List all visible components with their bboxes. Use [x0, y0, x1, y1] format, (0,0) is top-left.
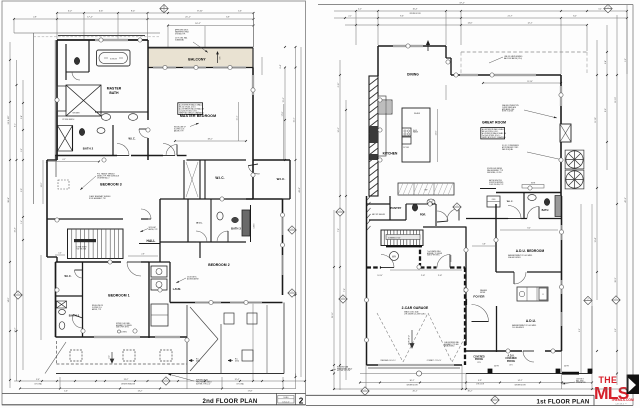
- svg-text:KITCHEN: KITCHEN: [383, 152, 398, 156]
- svg-text:3′-6″: 3′-6″: [21, 148, 23, 152]
- svg-text:GUTTER, TYP. 12′-4″: GUTTER, TYP. 12′-4″: [337, 370, 351, 372]
- svg-text:26′-3″: 26′-3″: [615, 277, 617, 282]
- svg-text:6′-4″: 6′-4″: [605, 60, 607, 64]
- svg-text:SLOPE 1/8″:12″: SLOPE 1/8″:12″: [409, 335, 411, 345]
- svg-text:W.I.C.: W.I.C.: [277, 177, 286, 181]
- svg-text:12′-1″: 12′-1″: [528, 22, 533, 24]
- hall walls near stairs: [423, 226, 466, 228]
- svg-text:2′-8″: 2′-8″: [141, 254, 145, 256]
- svg-text:LA’S MLS ™: LA’S MLS ™: [615, 403, 626, 406]
- svg-text:36′-11″: 36′-11″: [332, 312, 334, 318]
- garage door clearance dashed Vs: [377, 313, 403, 362]
- right sheet left dimension lines: [339, 60, 341, 390]
- svg-text:30x18: 30x18: [413, 130, 417, 132]
- svg-text:17′-8″: 17′-8″: [248, 391, 253, 393]
- svg-text:6′-8″: 6′-8″: [226, 17, 230, 19]
- svg-text:KOHLER: KOHLER: [110, 59, 118, 61]
- svg-text:BEDROOM 2: BEDROOM 2: [208, 263, 229, 267]
- left title scale box: [276, 393, 278, 404]
- ADU wic/bath divider: [523, 193, 525, 219]
- svg-text:15′-10″: 15′-10″: [615, 97, 617, 103]
- left top reference diamond: [160, 4, 168, 12]
- svg-text:9′-4″: 9′-4″: [131, 11, 136, 13]
- svg-text:8′-4″: 8′-4″: [527, 228, 531, 230]
- left sheet top dimension lines: [57, 12, 254, 14]
- svg-text:5′-0″: 5′-0″: [625, 58, 627, 62]
- svg-text:SYSTEM, TYP.: SYSTEM, TYP.: [175, 33, 186, 35]
- svg-text:5′-0″: 5′-0″: [21, 188, 23, 192]
- east wing wic walls: [253, 159, 290, 161]
- bedroom1 wic closet: [82, 262, 84, 337]
- svg-text:4′-2″: 4′-2″: [62, 159, 66, 161]
- svg-text:SIDING, TYP. PER SCHEDULE: SIDING, TYP. PER SCHEDULE: [97, 176, 119, 178]
- svg-text:PDR.: PDR.: [420, 214, 427, 217]
- svg-text:SLOPED CLG: SLOPED CLG: [92, 307, 102, 309]
- svg-text:5′-6″: 5′-6″: [64, 391, 68, 393]
- wall under balcony with windows: [148, 67, 254, 69]
- ADU south wall: [466, 350, 522, 352]
- svg-text:3′-2″: 3′-2″: [598, 8, 602, 10]
- cantilever balcony dashed line: [461, 51, 587, 53]
- svg-text:CONFIG: CONFIG: [121, 332, 128, 334]
- svg-text:40′-2″: 40′-2″: [625, 197, 627, 202]
- ovens: [487, 196, 500, 207]
- svg-text:6x6 PST: 6x6 PST: [564, 366, 569, 368]
- MLS logo: [594, 375, 639, 406]
- svg-text:2′-8″: 2′-8″: [33, 17, 37, 19]
- garage slope arrow: [410, 330, 414, 348]
- svg-text:NICHE: NICHE: [531, 183, 535, 185]
- hall diamond marker: [453, 203, 461, 211]
- bedroom2 right outer wall: [282, 199, 284, 295]
- svg-text:6x6 PST: 6x6 PST: [494, 366, 499, 368]
- vanity sinks master bath: [101, 114, 110, 121]
- svg-text:12′-4″: 12′-4″: [235, 379, 240, 381]
- powder room: [406, 203, 436, 205]
- dim 18-5 interior: [175, 140, 246, 142]
- deck sw diagonal: [45, 342, 66, 374]
- svg-text:16′-2″: 16′-2″: [195, 23, 201, 25]
- stairs second floor: [68, 229, 124, 259]
- dashed square bedroom3: [58, 180, 69, 189]
- svg-text:14′-0″: 14′-0″: [8, 297, 10, 302]
- svg-text:CENTER DOOR: CENTER DOOR: [406, 385, 418, 387]
- svg-text:8′-2″: 8′-2″: [579, 328, 581, 332]
- bath2 east wall: [112, 125, 114, 156]
- top dim risers left sheet: [56, 14, 58, 39]
- svg-text:3′-4″: 3′-4″: [21, 115, 23, 119]
- svg-text:1st FLOOR PLAN: 1st FLOOR PLAN: [537, 399, 590, 406]
- svg-text:W.I.C.: W.I.C.: [215, 176, 224, 180]
- svg-text:36′-1″: 36′-1″: [410, 380, 415, 382]
- svg-text:SHOWER: SHOWER: [72, 113, 80, 115]
- svg-text:SOFFITS/DROPPED: SOFFITS/DROPPED: [489, 182, 504, 184]
- kitchen range: [402, 128, 411, 136]
- svg-text:FOYER: FOYER: [473, 295, 485, 299]
- svg-text:8′-0″: 8′-0″: [573, 15, 577, 17]
- kitchen island: [402, 108, 430, 162]
- wall circle markers right: [406, 44, 410, 48]
- condenser units: [565, 150, 584, 169]
- svg-text:HALL: HALL: [147, 239, 156, 243]
- garage left wall: [366, 196, 368, 365]
- svg-text:9′-1″: 9′-1″: [15, 123, 17, 127]
- shower niche column: [57, 86, 66, 111]
- svg-text:BEDROOM 3: BEDROOM 3: [100, 182, 121, 186]
- svg-text:2′-1″: 2′-1″: [348, 15, 352, 17]
- svg-text:COVERED: COVERED: [505, 358, 517, 360]
- bedroom1 upper wall: [56, 261, 122, 263]
- deck hip diagonals right: [190, 307, 218, 339]
- right sheet right dimension lines: [596, 40, 598, 300]
- svg-text:6′-10″: 6′-10″: [338, 82, 340, 87]
- toilet bath2: [79, 128, 84, 135]
- garage entry door arcs: [381, 255, 394, 268]
- hall upper wall: [47, 218, 123, 220]
- dining door arrow: [427, 41, 430, 51]
- svg-text:16′ W.: 16′ W.: [477, 362, 481, 364]
- main top wall right plan: [451, 74, 561, 76]
- svg-text:A.D.U.: A.D.U.: [526, 319, 536, 323]
- svg-text:12′-2″: 12′-2″: [15, 327, 17, 332]
- ADU west wall: [495, 204, 497, 272]
- svg-text:21′-1″: 21′-1″: [185, 17, 191, 19]
- svg-text:16′ H.: 16′ H.: [509, 365, 513, 367]
- svg-text:5′-8″: 5′-8″: [482, 244, 486, 246]
- svg-text:PORCH: PORCH: [475, 359, 484, 361]
- svg-text:BATH 3: BATH 3: [231, 227, 241, 231]
- left sheet bottom dimension lines: [14, 380, 305, 382]
- svg-text:11′-10″: 11′-10″: [527, 81, 533, 83]
- svg-text:2x4 (2x6) STUDS, U.N.O. -: 2x4 (2x6) STUDS, U.N.O. -: [482, 135, 501, 137]
- right sheet bottom dimension lines: [360, 373, 592, 375]
- svg-text:36′-2″: 36′-2″: [468, 391, 473, 393]
- master bedroom right outer wall: [252, 68, 254, 200]
- ADU top wall: [496, 192, 562, 194]
- porch posts: [488, 369, 492, 373]
- svg-text:5′-10″: 5′-10″: [421, 275, 426, 277]
- svg-text:7′-6″: 7′-6″: [344, 288, 346, 292]
- svg-text:2nd FLOOR PLAN: 2nd FLOOR PLAN: [203, 398, 258, 405]
- ADU bath fixtures: [528, 195, 536, 201]
- right top reference diamond: [604, 4, 612, 12]
- kitchen hatched wall: [369, 76, 378, 196]
- svg-text:(DN1): (DN1): [235, 360, 240, 362]
- svg-text:THEMLS.COM: THEMLS.COM: [611, 398, 634, 402]
- fireplace: [560, 124, 571, 142]
- svg-text:17′-0″: 17′-0″: [282, 111, 284, 116]
- svg-text:15′-6″: 15′-6″: [283, 97, 285, 102]
- svg-text:8′-11″: 8′-11″: [478, 380, 482, 382]
- bath tub master: [97, 50, 131, 66]
- kitchen lower counter: [398, 183, 454, 195]
- svg-text:WH: WH: [392, 255, 396, 258]
- svg-text:12′-4″: 12′-4″: [595, 237, 597, 242]
- svg-text:SIDE OF RF. SHTG.: SIDE OF RF. SHTG.: [427, 255, 440, 257]
- svg-text:LAUN.: LAUN.: [173, 287, 182, 291]
- master suite divider wall: [147, 40, 149, 120]
- pantry walls: [367, 203, 390, 205]
- svg-text:GUTTER, TYP. 12′-4″: GUTTER, TYP. 12′-4″: [196, 383, 211, 385]
- right outer wall mid: [560, 142, 562, 196]
- svg-text:18′-5″: 18′-5″: [207, 139, 212, 141]
- svg-text:DRYER: DRYER: [480, 292, 486, 294]
- ADU kitchenette: [517, 287, 548, 301]
- hall/foyer east wall: [465, 227, 467, 307]
- left title band: [2, 392, 306, 394]
- svg-text:BEDROOM 1: BEDROOM 1: [108, 294, 129, 298]
- bath3 shower panel: [242, 210, 250, 236]
- svg-text:OVEN: OVEN: [492, 199, 496, 201]
- svg-text:CENTER DOOR: CENTER DOOR: [409, 13, 421, 15]
- svg-text:13′-2″: 13′-2″: [138, 391, 143, 393]
- dining right jog: [445, 46, 447, 58]
- svg-text:BATH 1: BATH 1: [69, 314, 80, 318]
- svg-text:4′-2″: 4′-2″: [358, 8, 362, 10]
- right sheet border: [318, 4, 633, 6]
- svg-text:(DN1): (DN1): [196, 360, 201, 362]
- mid horizontal wall y155: [56, 155, 118, 157]
- svg-text:13′-2″: 13′-2″: [124, 379, 129, 381]
- wall circles markers left: [138, 38, 142, 42]
- svg-text:7 3/4″ TR. RUN: 7 3/4″ TR. RUN: [76, 248, 86, 250]
- bath3 block walls: [159, 199, 161, 240]
- bath2 shower: [58, 126, 73, 152]
- svg-text:17′-2″: 17′-2″: [87, 17, 93, 19]
- svg-text:4′-6″: 4′-6″: [58, 253, 62, 255]
- svg-text:BATH: BATH: [542, 209, 549, 212]
- lower deck outline: [56, 373, 284, 375]
- right reference diamonds: [336, 208, 344, 216]
- stairs first floor: [381, 230, 423, 246]
- svg-text:5′-2″: 5′-2″: [68, 11, 73, 13]
- svg-text:PORCH: PORCH: [507, 361, 516, 363]
- left sheet left dimension lines: [9, 42, 11, 388]
- top dim risers right sheet: [355, 12, 357, 45]
- shower X box master: [66, 85, 101, 116]
- svg-text:14′-6″: 14′-6″: [468, 22, 473, 24]
- balcony deck (beige): [148, 48, 254, 68]
- svg-text:COVERED: COVERED: [473, 357, 485, 359]
- svg-text:21′-6 1/2″: 21′-6 1/2″: [8, 115, 10, 124]
- porch deck edge: [466, 373, 592, 375]
- svg-text:W.I.C.: W.I.C.: [196, 223, 203, 225]
- left plan outer wall left upper: [56, 40, 58, 160]
- left sheet right dimension lines: [295, 47, 297, 378]
- balcony DN arrow: [217, 52, 219, 63]
- water heater: [390, 252, 399, 261]
- svg-text:16′-0″: 16′-0″: [41, 182, 43, 187]
- svg-text:15′-1″: 15′-1″: [294, 117, 296, 122]
- hall door arc to great room: [447, 209, 459, 221]
- right title band: [306, 394, 594, 396]
- left roof overhang outline: [14, 32, 160, 34]
- deck dashed eave left: [56, 341, 58, 364]
- svg-text:9′-6″: 9′-6″: [400, 15, 404, 17]
- bedroom2 left wall: [199, 242, 201, 258]
- svg-text:CTR. DOOR: CTR. DOOR: [476, 384, 484, 386]
- svg-text:8′-6″: 8′-6″: [605, 108, 607, 112]
- svg-text:3′-6″: 3′-6″: [36, 379, 40, 381]
- svg-text:14″ WIDE BENCH: 14″ WIDE BENCH: [62, 119, 74, 121]
- svg-text:40′-0″: 40′-0″: [299, 187, 301, 193]
- svg-text:REF: REF: [425, 190, 428, 192]
- garage bottom wall and door: [367, 364, 463, 366]
- svg-text:K.S.S.C. CONDENSERS: K.S.S.C. CONDENSERS: [502, 145, 519, 147]
- svg-text:W.I.C.: W.I.C.: [507, 201, 514, 203]
- foyer walls: [465, 306, 467, 345]
- left plan outer wall top (master bath block): [57, 39, 148, 41]
- svg-text:A.D.U.: A.D.U.: [508, 355, 515, 358]
- svg-text:13′-6″: 13′-6″: [436, 130, 438, 135]
- svg-text:BALCONY: BALCONY: [188, 58, 206, 62]
- svg-text:14′-1″: 14′-1″: [518, 380, 523, 382]
- svg-text:BE 2x6 STUDS, U.N.O.: BE 2x6 STUDS, U.N.O.: [482, 131, 499, 133]
- svg-text:11′-10″: 11′-10″: [595, 117, 597, 123]
- wc door arcs upper: [139, 129, 148, 138]
- linen closet: [250, 205, 252, 242]
- entry door: [472, 305, 489, 322]
- ADU bath bottom wall segments: [466, 218, 496, 220]
- svg-text:CLGS CEILING, TYP.: CLGS CEILING, TYP.: [489, 184, 504, 186]
- svg-text:8′-10″: 8′-10″: [197, 11, 203, 13]
- svg-text:1-HR. UNDER CLG.-SEE T.24/B.S: 1-HR. UNDER CLG.-SEE T.24/B.S: [404, 313, 426, 315]
- svg-text:16′-10″: 16′-10″: [377, 275, 383, 277]
- dining top wall: [378, 45, 446, 47]
- svg-text:16′-4″: 16′-4″: [413, 8, 418, 10]
- garage insulated dashed walls: [367, 266, 382, 268]
- svg-text:21′-7″: 21′-7″: [508, 15, 513, 17]
- svg-text:11′-1″: 11′-1″: [237, 115, 239, 120]
- dashed skylights left deck: [70, 350, 82, 361]
- ADU mid wall: [496, 271, 514, 273]
- right sheet top dimension lines: [334, 10, 627, 12]
- svg-text:16′-4″: 16′-4″: [15, 227, 17, 232]
- svg-text:CENTER WINDOW: CENTER WINDOW: [121, 384, 135, 386]
- svg-text:16′-6″: 16′-6″: [338, 127, 340, 132]
- hall small dims: [55, 254, 65, 256]
- svg-text:RIDGE-LINE OF: RIDGE-LINE OF: [174, 127, 186, 129]
- svg-text:1′-4″: 1′-4″: [21, 220, 23, 224]
- wc walls master bath: [65, 44, 67, 80]
- svg-text:SIDE OF RF. SHTG.: SIDE OF RF. SHTG.: [116, 327, 130, 329]
- dim x43 column: [42, 160, 44, 204]
- laundry machines: [151, 266, 167, 277]
- svg-text:2-CAR GARAGE: 2-CAR GARAGE: [402, 306, 429, 310]
- svg-text:CENTER DOOR: CENTER DOOR: [514, 385, 526, 387]
- kitchen cabinets upper: [378, 96, 386, 156]
- svg-text:CUSTOM 1″: CUSTOM 1″: [576, 379, 584, 381]
- ADU right outer wall: [561, 196, 563, 351]
- left wall hatch lower: [367, 196, 371, 200]
- svg-text:1/4"=1′-0": 1/4"=1′-0": [282, 401, 290, 403]
- svg-text:BATH 2: BATH 2: [83, 146, 94, 150]
- svg-text:BE 2x6 STUDS, U.N.O.: BE 2x6 STUDS, U.N.O.: [179, 106, 196, 108]
- interior dim lines right: [445, 85, 447, 100]
- svg-text:4:12: 4:12: [109, 355, 111, 358]
- bedroom2 bottom wall: [170, 302, 283, 304]
- svg-text:RIDGE-LINE OF: RIDGE-LINE OF: [92, 305, 103, 307]
- wall note box left sheet: [178, 103, 203, 115]
- svg-text:26′-1″: 26′-1″: [413, 391, 418, 393]
- svg-text:16 RISERS @ 7 3/4″: 16 RISERS @ 7 3/4″: [388, 237, 401, 239]
- svg-text:SKYLIGHT: SKYLIGHT: [149, 227, 157, 229]
- svg-text:DINING: DINING: [407, 73, 419, 77]
- stair center rail: [74, 239, 96, 242]
- svg-text:W.I.C.: W.I.C.: [128, 138, 135, 141]
- bedroom1 bottom wall with windows: [56, 336, 188, 338]
- svg-text:3′-10″: 3′-10″: [438, 275, 443, 277]
- stair heavy rated wall: [386, 245, 422, 247]
- left reference diamonds: [14, 291, 22, 299]
- svg-text:36′-8″: 36′-8″: [8, 197, 10, 203]
- wic closet walls: [183, 160, 185, 199]
- svg-text:6′-6″: 6′-6″: [615, 328, 617, 332]
- svg-text:SLOPED CLG: SLOPED CLG: [174, 129, 185, 131]
- svg-text:PANTRY: PANTRY: [391, 206, 402, 210]
- svg-text:6′-4″: 6′-4″: [280, 64, 282, 68]
- hall lower wall: [139, 243, 160, 245]
- svg-text:2x4 (2x6) STUDS, U.N.O. -: 2x4 (2x6) STUDS, U.N.O. -: [179, 110, 199, 112]
- svg-text:16 RISE. RISER: 16 RISE. RISER: [76, 247, 87, 249]
- slope arrow deck: [110, 352, 114, 363]
- svg-text:37′-2″: 37′-2″: [459, 3, 465, 5]
- bath1 fixtures: [57, 301, 67, 308]
- svg-text:BATH: BATH: [109, 91, 119, 95]
- svg-text:36″ REF: 36″ REF: [403, 147, 409, 149]
- skylight squares right deck: [224, 313, 234, 324]
- bath2 sink: [97, 128, 105, 134]
- svg-text:6′-6″: 6′-6″: [99, 11, 104, 13]
- svg-text:A.D.U. BEDROOM: A.D.U. BEDROOM: [516, 249, 545, 253]
- great room south wall / media niche: [480, 188, 496, 190]
- left sheet border: [2, 1, 306, 405]
- svg-text:5′-6″: 5′-6″: [238, 11, 242, 13]
- great room wall note box: [481, 128, 505, 139]
- svg-text:7′-6″: 7′-6″: [338, 228, 340, 232]
- dining left wall: [377, 46, 379, 76]
- svg-text:2: 2: [299, 397, 304, 406]
- kitchen dim interior: [437, 109, 439, 162]
- laundry walls: [159, 240, 161, 262]
- right outer wall upper: [560, 75, 562, 124]
- laundry lower shaft: [151, 304, 168, 326]
- svg-text:ISLAND: ISLAND: [414, 112, 421, 115]
- svg-text:W.I.C.: W.I.C.: [64, 275, 71, 278]
- svg-text:GREAT ROOM: GREAT ROOM: [482, 121, 506, 125]
- bedroom2 top wall jog: [246, 198, 283, 200]
